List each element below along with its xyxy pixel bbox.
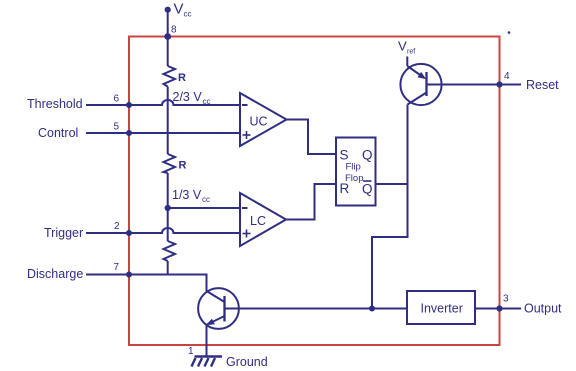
svg-text:Output: Output xyxy=(524,302,562,316)
svg-text:1: 1 xyxy=(188,346,194,357)
wire: 1/3 Vcc node to LC minus input xyxy=(168,207,240,209)
svg-text:Discharge: Discharge xyxy=(27,267,83,281)
flip-flop U1 box xyxy=(336,138,376,206)
svg-text:6: 6 xyxy=(114,94,120,105)
wire: inverter output to Output pin xyxy=(475,308,521,310)
UC minus sign xyxy=(242,104,248,106)
wire: UC output to S input xyxy=(287,120,337,155)
svg-text:cc: cc xyxy=(202,195,210,204)
svg-text:ref: ref xyxy=(407,49,415,56)
Q1 collector diagonal xyxy=(207,291,225,302)
svg-text:Inverter: Inverter xyxy=(421,302,463,316)
wire: LC output to R input xyxy=(286,184,336,220)
wire: Q-bar output xyxy=(376,183,408,185)
ground symbol xyxy=(192,357,223,367)
Q1 emitter diagonal with arrow xyxy=(207,316,225,325)
wire: Q1 emitter to ground xyxy=(206,325,208,357)
node: pin 4 dot xyxy=(496,81,502,87)
svg-text:R: R xyxy=(179,160,187,172)
wire: discharge line to Q1 collector xyxy=(86,275,207,292)
svg-text:8: 8 xyxy=(171,25,177,36)
node: pin 6 dot xyxy=(126,102,132,108)
node: 1/3 Vcc junction dot xyxy=(165,205,171,211)
LC minus sign xyxy=(242,207,248,209)
Q-bar overline xyxy=(363,180,372,182)
node: pin 2 dot xyxy=(126,230,132,236)
label Vcc xyxy=(174,1,192,19)
node: pin 8 junction dot on top border xyxy=(164,33,171,40)
svg-text:7: 7 xyxy=(114,262,120,273)
inverter box xyxy=(407,291,475,324)
wire: Q2 base to Reset pin xyxy=(427,84,522,86)
svg-text:V: V xyxy=(174,1,184,18)
svg-text:4: 4 xyxy=(504,71,510,82)
svg-text:Control: Control xyxy=(38,126,78,140)
svg-text:5: 5 xyxy=(114,122,120,133)
node: pin 5 dot xyxy=(126,130,132,136)
Q2 base bar xyxy=(425,72,427,96)
svg-text:Threshold: Threshold xyxy=(27,97,83,111)
svg-text:1/3 V: 1/3 V xyxy=(172,188,202,202)
svg-text:2/3 V: 2/3 V xyxy=(173,90,203,104)
node: junction dot on inverter input xyxy=(369,306,375,312)
op-amp UC xyxy=(240,93,287,146)
svg-text:Trigger: Trigger xyxy=(44,226,83,240)
svg-text:LC: LC xyxy=(250,214,266,228)
wire: Q2 collector down, across, down to inverter input xyxy=(372,105,408,309)
IC boundary red box xyxy=(129,37,500,346)
UC plus sign xyxy=(243,131,251,139)
Q2 emitter diagonal with arrow (PNP) xyxy=(407,66,423,77)
label Vref xyxy=(398,39,415,56)
node: Vcc terminal dot xyxy=(165,7,171,13)
svg-text:3: 3 xyxy=(503,294,509,305)
Q2 emitter lead from Vref xyxy=(406,57,408,67)
svg-text:Q: Q xyxy=(362,148,373,163)
svg-text:R: R xyxy=(340,181,350,196)
svg-text:Flip: Flip xyxy=(346,162,361,173)
svg-text:cc: cc xyxy=(184,10,192,19)
resistor R1 xyxy=(164,66,176,87)
svg-text:Ground: Ground xyxy=(226,355,268,369)
wire: Vcc stem (x=168 divider chain) xyxy=(167,10,169,275)
LC plus sign xyxy=(243,230,251,238)
svg-text:R: R xyxy=(178,72,186,84)
wire: control line xyxy=(86,132,240,134)
svg-text:S: S xyxy=(340,148,349,163)
svg-text:UC: UC xyxy=(250,115,268,129)
Q2 collector diagonal xyxy=(408,93,427,105)
transistor Q2 (Vref) circle xyxy=(400,64,441,105)
stray dot xyxy=(508,31,511,34)
node: pin 7 dot xyxy=(126,272,132,278)
svg-text:Reset: Reset xyxy=(526,78,559,92)
svg-text:V: V xyxy=(398,39,407,54)
wire: trigger line with hop over divider xyxy=(86,228,240,233)
wire: Q1 base to inverter input xyxy=(225,308,408,310)
resistor R3 xyxy=(164,241,176,261)
node: pin 3 dot xyxy=(496,305,502,311)
svg-text:Q: Q xyxy=(362,182,373,197)
Q1 base bar xyxy=(223,296,225,322)
resistor R2 xyxy=(164,154,176,173)
svg-text:2: 2 xyxy=(114,221,120,232)
label 2/3 Vcc xyxy=(173,90,211,106)
op-amp LC xyxy=(240,193,286,246)
label 1/3 Vcc xyxy=(172,188,210,204)
transistor Q1 (discharge) circle xyxy=(198,288,239,329)
wire: threshold line with hop over divider xyxy=(86,100,240,105)
